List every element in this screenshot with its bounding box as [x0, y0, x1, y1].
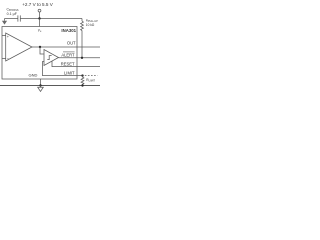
svg-text:+2.7 V to 5.5 V: +2.7 V to 5.5 V	[22, 2, 53, 7]
capacitor CBYPASS 0.1 uF	[17, 15, 19, 21]
svg-text:OUT: OUT	[67, 41, 76, 46]
node gnd junction	[39, 84, 41, 86]
wire ALERT	[59, 57, 101, 59]
comparator CMP triangle	[44, 50, 59, 66]
op-amp A1 triangle	[6, 33, 32, 61]
supply terminal circle	[38, 9, 41, 12]
node rlimit/rail junction	[81, 84, 83, 86]
wire IN- stub	[2, 58, 6, 60]
svg-text:GND: GND	[29, 72, 38, 77]
resistor RPULL-UP 10 kOhm	[81, 19, 83, 22]
node out junction	[39, 46, 41, 48]
wire IN+ stub	[2, 35, 6, 37]
wire RESET	[52, 61, 100, 67]
ground (top-left)	[4, 19, 6, 21]
ground (bottom)	[40, 86, 42, 88]
wire to comparator + input	[40, 47, 44, 54]
pin GND	[40, 79, 42, 86]
wire dashed external limit drive	[85, 75, 98, 77]
svg-text:RLIMIT: RLIMIT	[86, 78, 95, 83]
svg-text:INA301: INA301	[61, 28, 76, 33]
supply rail wire	[5, 18, 18, 20]
wire OUT	[32, 46, 100, 48]
svg-text:0.1 µF: 0.1 µF	[7, 12, 18, 16]
node supply junction	[38, 17, 40, 19]
wire ground rail	[0, 85, 100, 87]
svg-text:RESET: RESET	[61, 61, 75, 66]
node limit junction	[81, 74, 83, 76]
op-amp U1 INA301 box	[2, 27, 77, 80]
svg-text:10 kΩ: 10 kΩ	[86, 23, 95, 27]
svg-text:ALERT: ALERT	[61, 53, 75, 58]
pin VS	[39, 19, 41, 27]
node alert/pull-up junction	[81, 57, 83, 59]
wire terminal to rail	[39, 12, 41, 19]
hysteresis symbol	[47, 56, 51, 60]
resistor RLIMIT	[81, 76, 84, 86]
wire LIMIT	[43, 62, 83, 76]
svg-text:LIMIT: LIMIT	[64, 70, 75, 75]
